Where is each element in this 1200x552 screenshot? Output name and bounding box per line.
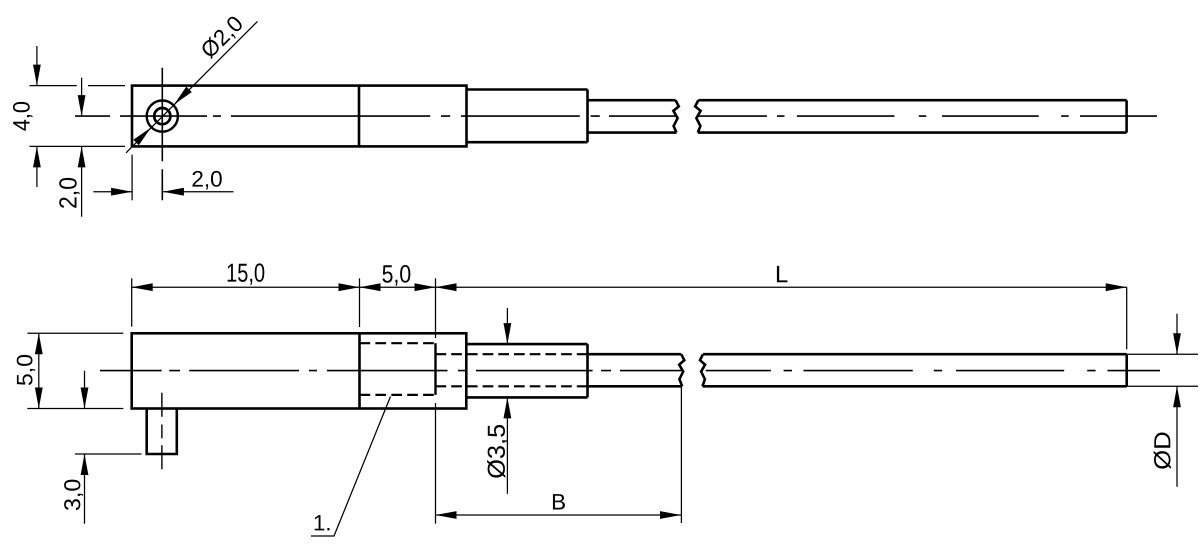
dimension 2,0 vertical line (81, 78, 83, 217)
dimension 5,0 vertical extension lines (27, 333, 123, 408)
top view: sensor body outline (132, 86, 467, 147)
dimension 3,0 extension line (75, 453, 142, 455)
dimension text 3,0 (64, 480, 83, 511)
leader arrowhead upper (174, 87, 192, 105)
side view: horizontal centerline (100, 370, 1160, 372)
dimension diameter D arrow top (1173, 333, 1181, 354)
dimension text 2,0 vertical (59, 178, 80, 208)
dimension B extension line at break (680, 387, 682, 523)
dimension 5,0 vertical arrow bottom (35, 388, 43, 409)
dimension 2,0 vertical arrow bottom (78, 146, 86, 167)
dimension text 5,0 vertical (17, 355, 36, 385)
dimension 3,0 arrow bottom (81, 454, 89, 475)
dimension 2,0 horizontal arrow left (111, 188, 132, 196)
dimension 2,0 horizontal line (93, 191, 233, 193)
side view: body segment divider line (358, 333, 361, 408)
top view: cable segment 1 with break (588, 100, 679, 132)
dimension extension line at cable end (1126, 287, 1128, 349)
dimension 5,0 vertical line (38, 333, 40, 408)
dimension diameter D extension lines (1127, 354, 1198, 386)
top view: sleeve outline (467, 90, 588, 143)
dimension 4,0 arrow bottom (33, 146, 41, 167)
top view: body segment divider line (358, 86, 361, 147)
dimension text diameter 3,5 (487, 425, 508, 478)
dimension 2,0 horizontal extension line (131, 155, 133, 201)
side view: hidden sleeve rectangle right edge (434, 343, 436, 395)
dimension text 15,0 (228, 263, 265, 285)
dimension B arrow right (660, 511, 681, 519)
leader line for hole diameter (126, 21, 258, 153)
dimension B arrow left (436, 511, 457, 519)
top view: fiber exit hole outer circle (147, 101, 178, 132)
dimension 15,0 line (132, 286, 360, 288)
side view: sleeve outline (466, 344, 587, 397)
top view: horizontal centerline (75, 115, 1157, 117)
dimension 15,0 arrow right (339, 283, 360, 291)
dimension L arrow left (436, 283, 457, 291)
dimension 2,0 vertical arrow top (78, 95, 86, 116)
side view: nose centerline (161, 393, 163, 470)
top view: fiber exit hole inner circle (154, 108, 170, 124)
side view: body outline (132, 333, 467, 408)
note text 1. (315, 515, 330, 530)
dimension diameter 3,5 arrow bottom (504, 397, 512, 418)
note 1 leader line (311, 397, 391, 537)
dimension 3,0 line (84, 371, 86, 524)
dimension text 5,0 (382, 265, 410, 286)
dimension text 4,0 (13, 102, 33, 131)
top view: hole vertical centerline (161, 68, 163, 201)
dimension L line (436, 286, 1127, 288)
dimension 5,0 vertical arrow top (35, 333, 43, 354)
side view: fiber nose tip (147, 409, 177, 455)
side view: hidden cable top line (436, 353, 588, 355)
dimension 15,0 arrow left (132, 283, 153, 291)
dimension 4,0 line (36, 46, 38, 187)
dimension 4,0 arrow top (33, 65, 41, 86)
dimension text B (553, 494, 565, 509)
dimension L arrow right (1106, 283, 1127, 291)
dimension 5,0 arrow left (360, 283, 381, 291)
side view: cable segment 2 with break (700, 354, 1127, 386)
dimension diameter D line (1176, 314, 1178, 487)
dimension text L (777, 266, 788, 282)
dimension B line (436, 514, 682, 516)
side view: cable segment 1 with break (588, 354, 685, 386)
dimension 3,0 arrow top (81, 388, 89, 409)
dimension text 2,0 horizontal (192, 171, 221, 190)
dimension extension line at divider (359, 278, 361, 327)
top view: cable segment 2 with break (695, 100, 1126, 132)
dimension diameter 3,5 line (506, 308, 508, 494)
dimension B extension line left (435, 403, 437, 524)
label diameter 2,0 (199, 14, 246, 61)
dimension 2,0 horizontal arrow right (163, 188, 184, 196)
dimension diameter D arrow bottom (1173, 386, 1181, 407)
side view: hidden cable bottom line (436, 385, 588, 387)
dimension text diameter D (1154, 433, 1171, 469)
dimension diameter 3,5 arrow top (504, 323, 512, 344)
leader arrowhead lower (133, 128, 151, 146)
side view: hidden sleeve rectangle dashes bottom (360, 394, 436, 396)
side view: hidden sleeve rectangle dashes top (360, 342, 436, 344)
dimension extension line at body left edge (131, 278, 133, 326)
dimension 5,0 line (360, 286, 436, 288)
dimension extension line at sleeve start (435, 278, 437, 338)
dimension 4,0 extension lines (30, 86, 126, 147)
dimension 5,0 arrow right (415, 283, 436, 291)
